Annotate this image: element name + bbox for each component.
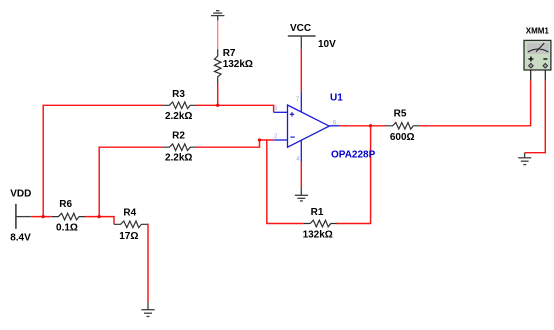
wire R4 down to ground [147, 224, 148, 302]
XMM1 meter arc [528, 49, 549, 52]
resistor R4 [114, 221, 148, 228]
XMM1 minus terminal [543, 63, 548, 68]
op-amp U1 triangle [288, 105, 330, 147]
svg-text:0.1Ω: 0.1Ω [56, 223, 78, 234]
multimeter XMM1 [524, 27, 551, 81]
resistor R7 [214, 49, 221, 83]
svg-text:XMM1: XMM1 [526, 27, 550, 36]
wire R7 to node [217, 82, 219, 105]
wire VCC to op-amp pin7 [300, 49, 302, 91]
wire R3 to node to op-amp pin3 [196, 105, 274, 112]
svg-text:R4: R4 [123, 207, 136, 218]
XMM1 minus sign [543, 58, 547, 60]
svg-text:R2: R2 [172, 131, 185, 142]
XMM1 plus terminal [529, 63, 534, 68]
wire op-amp output to R5 [340, 125, 386, 127]
VDD power symbol [10, 189, 31, 244]
svg-text:8.4V: 8.4V [10, 233, 31, 244]
wire junction2 up to R2 row [99, 147, 163, 216]
svg-text:R7: R7 [223, 48, 236, 59]
resistor R5 [386, 123, 420, 130]
junction R7/R3 [216, 104, 219, 107]
XMM1 display [527, 43, 549, 54]
junction output/R5 [369, 124, 372, 127]
ground below op-amp [295, 188, 308, 201]
wire ground to R7 [217, 20, 219, 49]
svg-text:U1: U1 [330, 93, 343, 104]
op-amp pin2 stub [274, 139, 288, 141]
wire feedback node down to R1 [267, 140, 304, 224]
op-amp pin7 stub [300, 92, 302, 113]
svg-text:17Ω: 17Ω [119, 231, 138, 242]
XMM1 needle [536, 43, 544, 52]
XMM1 plus sign [528, 57, 533, 62]
wire R5 to XMM1 plus terminal [420, 80, 531, 126]
svg-text:VDD: VDD [10, 189, 31, 200]
svg-text:10V: 10V [318, 39, 336, 50]
VCC power symbol [288, 23, 336, 50]
XMM1 minus terminal stub [544, 70, 546, 80]
svg-text:R1: R1 [311, 207, 324, 218]
wire R1 up to output junction [337, 126, 371, 224]
svg-text:R5: R5 [394, 109, 407, 120]
ground top (above R7) [211, 11, 224, 21]
resistor R3 [163, 102, 197, 109]
wire op-amp pin4 to ground [300, 162, 302, 188]
op-amp minus input marking [290, 136, 294, 138]
wire XMM1 minus terminal to ground [525, 80, 546, 152]
junction VDD/R6 [42, 215, 45, 218]
svg-text:R3: R3 [172, 89, 185, 100]
svg-text:132kΩ: 132kΩ [303, 230, 333, 241]
resistor R1 [304, 220, 338, 227]
resistor R6 [52, 213, 86, 220]
junction feedback/pin2 [258, 138, 261, 141]
XMM1 plus terminal stub [530, 70, 532, 80]
junction R6/R4 [98, 215, 101, 218]
resistor R2 [163, 144, 197, 151]
op-amp pin6 stub [329, 125, 340, 127]
wire R2 to op-amp pin2 [196, 140, 274, 147]
svg-text:2.2kΩ: 2.2kΩ [165, 152, 192, 163]
op-amp plus input marking [290, 112, 294, 116]
ground below XMM1 [518, 153, 531, 165]
wire VDD to junction1 to R6 [31, 216, 52, 218]
svg-text:OPA228P: OPA228P [331, 150, 376, 161]
XMM1 body [524, 40, 551, 70]
wire junction1 up to R3 row [43, 105, 163, 216]
svg-text:VCC: VCC [290, 23, 311, 34]
svg-text:132kΩ: 132kΩ [223, 59, 253, 70]
op-amp pin3 stub [274, 111, 288, 113]
op-amp pin4 stub [300, 140, 302, 162]
wire R6 to junction2 to R4 (step down) [85, 217, 114, 225]
svg-text:R6: R6 [59, 199, 72, 210]
svg-text:600Ω: 600Ω [390, 132, 415, 143]
svg-text:2.2kΩ: 2.2kΩ [165, 111, 192, 122]
ground below R4 [141, 302, 154, 317]
